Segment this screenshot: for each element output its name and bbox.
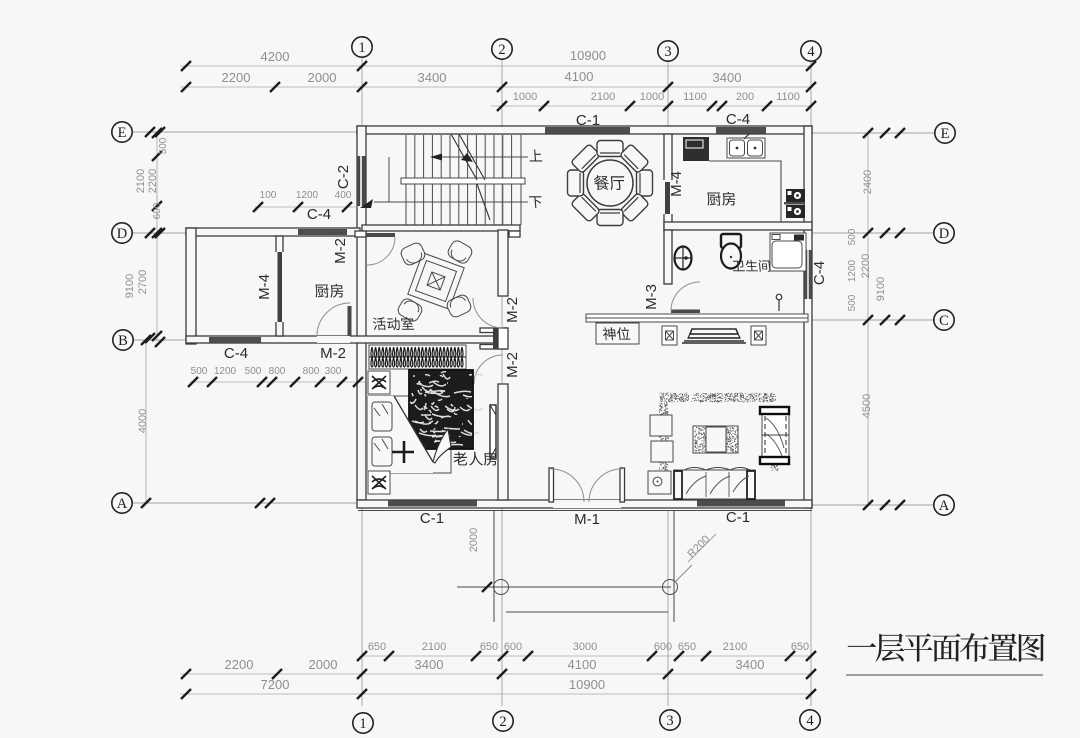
grid bubble 1 top (352, 37, 372, 57)
svg-text:3400: 3400 (736, 657, 765, 672)
door M-1 entrance left leaf (549, 468, 554, 502)
kitchen sink (727, 138, 765, 158)
svg-text:300: 300 (325, 366, 342, 377)
living lamp table (648, 471, 671, 494)
svg-text:650: 650 (480, 641, 498, 653)
svg-text:9100: 9100 (875, 277, 887, 301)
radius label R200 (675, 565, 692, 582)
bedroom bedside table top (368, 371, 390, 394)
wall hall west lower (498, 384, 508, 500)
wall hall west upper (498, 230, 508, 296)
svg-text:3400: 3400 (415, 657, 444, 672)
left dim ticks (152, 128, 162, 138)
room label kitchen right (708, 192, 736, 206)
svg-text:2000: 2000 (468, 528, 480, 552)
dining table round (587, 160, 633, 206)
door M-1 entrance right leaf (620, 468, 625, 502)
svg-text:4: 4 (807, 44, 815, 60)
right dim ticks (863, 128, 873, 138)
stair handrail (401, 178, 525, 184)
living rug border top (660, 393, 776, 402)
svg-text:2200: 2200 (147, 169, 159, 193)
door M-4 left wing leaf (278, 252, 283, 322)
svg-text:650: 650 (368, 641, 386, 653)
svg-text:M-2: M-2 (504, 297, 521, 323)
grid bubble E left (112, 122, 132, 142)
stair stringer right edge (520, 135, 522, 225)
bed sheet fold (368, 396, 433, 473)
dim line bottom row3 (180, 693, 813, 695)
window C-4 left wing north (298, 229, 347, 235)
svg-text:M-2: M-2 (320, 345, 346, 362)
svg-text:M-1: M-1 (574, 511, 600, 528)
door M-2 left wing kitchen leaf (348, 306, 352, 336)
grid bubble C right (934, 310, 954, 330)
bath toilet (721, 234, 741, 248)
altar table top (682, 329, 746, 343)
wall row B (186, 336, 507, 343)
svg-text:3: 3 (666, 713, 673, 729)
svg-text:1100: 1100 (776, 91, 800, 103)
living rug border right (771, 465, 779, 470)
activity table square (408, 253, 464, 309)
grid row C line (812, 319, 934, 321)
door M-2 stair to activity arc (367, 237, 395, 265)
stair label up (530, 150, 543, 162)
wall dining kitchen divider (664, 134, 672, 230)
svg-text:1000: 1000 (640, 91, 664, 103)
svg-text:R200: R200 (685, 533, 712, 560)
window C-2 west (357, 156, 367, 206)
svg-text:2000: 2000 (308, 70, 337, 85)
svg-text:3000: 3000 (573, 641, 597, 653)
dim line bottom row2 (180, 673, 813, 675)
title underline (846, 674, 1043, 676)
dim line bottom row1 (362, 655, 813, 657)
door M-3 bath arc (671, 282, 700, 311)
wall left wing north row D (186, 228, 360, 236)
bed pillows (372, 402, 392, 431)
bedroom bed (368, 396, 451, 473)
svg-text:M-3: M-3 (643, 284, 660, 310)
svg-text:C-4: C-4 (224, 345, 248, 362)
title first floor plan layout (848, 633, 1045, 662)
svg-text:4100: 4100 (565, 69, 594, 84)
living coffee table (693, 426, 738, 453)
grid bubble 3 bottom (660, 710, 680, 730)
svg-text:4200: 4200 (261, 49, 290, 64)
svg-text:D: D (117, 226, 127, 242)
grid bubble B left (113, 330, 133, 350)
door M-1 right arc (589, 469, 622, 502)
svg-text:500: 500 (847, 228, 858, 245)
porch tick (482, 582, 492, 592)
svg-text:2: 2 (498, 42, 505, 58)
svg-text:9100: 9100 (124, 274, 136, 298)
grid row B line (133, 339, 187, 341)
bedroom mirror bar (490, 405, 496, 458)
grid line 1 vertical (361, 58, 363, 706)
window C-4 east bath (805, 250, 812, 299)
grid bubble 2 top (492, 39, 512, 59)
svg-text:500: 500 (158, 137, 169, 154)
svg-text:M-4: M-4 (668, 171, 685, 197)
svg-text:2200: 2200 (225, 657, 254, 672)
svg-text:C-1: C-1 (420, 510, 444, 527)
living sofa (674, 470, 755, 499)
window C-4 north kitchen (716, 127, 766, 134)
room label shrine (603, 327, 631, 340)
grid bubble D right (934, 223, 954, 243)
svg-text:C-2: C-2 (335, 165, 352, 189)
living rug border left (659, 402, 669, 472)
stair up route line (436, 156, 528, 158)
svg-text:2100: 2100 (591, 91, 615, 103)
wall west exterior (357, 126, 366, 500)
dim line top row3 (491, 105, 813, 107)
svg-text:200: 200 (736, 91, 754, 103)
wall kitchen bath row D (664, 222, 812, 230)
grid line 2 vertical (501, 60, 503, 706)
room label activity room (373, 317, 414, 330)
grid bubble 4 top (801, 41, 821, 61)
living armchair lower (651, 441, 673, 462)
svg-text:1200: 1200 (214, 366, 237, 377)
svg-text:10900: 10900 (570, 48, 606, 63)
wall stair south inner stubs (355, 231, 366, 237)
svg-text:1200: 1200 (296, 190, 319, 201)
stair break line (451, 134, 490, 220)
grid row E line (133, 131, 357, 133)
svg-text:4100: 4100 (568, 657, 597, 672)
svg-text:400: 400 (335, 190, 352, 201)
stair label down (529, 196, 542, 208)
grid row D line (133, 232, 187, 234)
svg-text:500: 500 (847, 294, 858, 311)
double ticks on grid row lines (145, 127, 155, 137)
grid bubble A left (112, 493, 132, 513)
wall north exterior row E (357, 126, 812, 134)
dim line top row1 (180, 65, 813, 67)
porch inner line (506, 611, 668, 613)
altar table legs (662, 326, 677, 345)
stair inner boundary (388, 157, 390, 202)
svg-text:2400: 2400 (862, 170, 874, 194)
svg-text:1: 1 (359, 716, 366, 732)
wall left wing west (186, 228, 196, 344)
grid bubble 3 top (658, 41, 678, 61)
dim ticks bottom row3 (181, 689, 191, 699)
svg-text:800: 800 (303, 366, 320, 377)
svg-text:A: A (939, 498, 950, 514)
wall stair south (362, 225, 520, 231)
shrine label box (596, 323, 639, 344)
grid line 4 vertical (810, 62, 812, 706)
door M-2 stair to activity leaf (366, 233, 395, 237)
svg-text:2100: 2100 (723, 641, 747, 653)
window C-1 south living (697, 501, 785, 507)
svg-text:M-2: M-2 (332, 238, 349, 264)
svg-text:3: 3 (664, 44, 671, 60)
svg-text:800: 800 (269, 366, 286, 377)
kitchen stove (786, 189, 805, 202)
svg-text:A: A (117, 496, 128, 512)
bath washbasin (675, 247, 692, 270)
svg-text:650: 650 (678, 641, 696, 653)
svg-text:C-1: C-1 (576, 112, 600, 129)
window C-1 south bedroom (388, 501, 477, 507)
room label old people room (454, 452, 497, 466)
svg-text:M-4: M-4 (256, 274, 273, 300)
svg-text:E: E (941, 126, 950, 142)
door M-4 leaf kitchen (665, 182, 670, 214)
grid bubble 4 bottom (800, 710, 820, 730)
bed center cross (392, 441, 414, 463)
dim ticks bottom row1 (357, 651, 367, 661)
svg-text:1000: 1000 (513, 91, 537, 103)
sill line below south wall (358, 510, 812, 512)
door M-2 left wing kitchen arc (317, 303, 350, 336)
living armchair upper (650, 415, 672, 436)
porch edge right (673, 510, 675, 622)
dining chairs (637, 170, 653, 196)
grid bubble A right (934, 495, 954, 515)
svg-text:500: 500 (245, 366, 262, 377)
grid bubble E right (935, 123, 955, 143)
room label dining (594, 175, 624, 190)
svg-text:4000: 4000 (137, 409, 149, 433)
svg-text:2200: 2200 (222, 70, 251, 85)
svg-text:3400: 3400 (713, 70, 742, 85)
grid bubble 1 bottom (353, 713, 373, 733)
wall south exterior row A (357, 500, 812, 508)
svg-text:2200: 2200 (860, 254, 872, 278)
window C-1 north dining (545, 127, 630, 134)
wall east exterior (804, 126, 812, 508)
svg-text:3400: 3400 (418, 70, 447, 85)
svg-text:C-1: C-1 (726, 509, 750, 526)
svg-text:2000: 2000 (309, 657, 338, 672)
svg-text:C: C (939, 313, 949, 329)
svg-text:10900: 10900 (569, 677, 605, 692)
svg-text:E: E (118, 125, 127, 141)
svg-text:C-4: C-4 (726, 111, 750, 128)
porch step line with circles (457, 586, 671, 588)
svg-text:1100: 1100 (683, 91, 707, 103)
dim ticks top row2 (181, 82, 191, 92)
dim line top row2 (180, 86, 813, 88)
right vertical dim line (867, 133, 869, 505)
dim ticks top row3 (497, 101, 507, 111)
room label kitchen left wing (316, 284, 344, 298)
dim ticks top row1 (181, 61, 191, 71)
grid bubble D left (112, 223, 132, 243)
altar shelf band (586, 314, 808, 322)
grid bubble 2 bottom (493, 711, 513, 731)
door M-2 hall to activity arc (473, 298, 503, 328)
svg-text:100: 100 (260, 190, 277, 201)
svg-text:C-4: C-4 (307, 206, 331, 223)
window C-4 left wing south (209, 337, 261, 343)
svg-text:2: 2 (499, 714, 506, 730)
svg-text:D: D (939, 226, 949, 242)
grid line 3 vertical (667, 62, 669, 134)
porch edge left (493, 510, 495, 622)
bath tub (770, 233, 806, 271)
svg-text:1200: 1200 (847, 259, 858, 282)
svg-text:2700: 2700 (137, 270, 149, 294)
bedroom bedside table bottom (368, 471, 390, 494)
wall left wing divider M-4 (276, 236, 283, 336)
svg-text:2100: 2100 (135, 169, 147, 193)
stair treads (405, 135, 407, 225)
bedroom quilt dark (409, 370, 473, 449)
svg-text:4: 4 (806, 713, 814, 729)
svg-text:4500: 4500 (861, 394, 873, 418)
svg-text:500: 500 (191, 366, 208, 377)
svg-text:7200: 7200 (261, 677, 290, 692)
bath floor drain (776, 294, 782, 300)
bedroom wardrobe hatched (369, 345, 466, 369)
svg-text:1: 1 (358, 40, 365, 56)
svg-text:C-4: C-4 (811, 261, 828, 285)
kitchen counter line (709, 161, 781, 222)
wall bath west (664, 230, 672, 284)
living tv cabinet (762, 407, 789, 464)
door M-2 hall to bedroom arc (474, 355, 503, 384)
wall junction block between doors M-2 (480, 328, 507, 333)
door M-1 left arc (551, 469, 584, 502)
svg-text:2100: 2100 (422, 641, 446, 653)
door M-3 bath leaf (671, 310, 700, 314)
svg-text:B: B (118, 333, 128, 349)
kitchen fridge (683, 137, 709, 161)
dim ticks bottom row2 (181, 669, 191, 679)
grid row A line (132, 502, 358, 504)
stair down route line (374, 201, 528, 203)
left vertical dim line (156, 133, 158, 340)
room label bathroom (733, 260, 770, 272)
svg-text:600: 600 (152, 202, 163, 219)
activity chairs (399, 241, 427, 267)
svg-text:M-2: M-2 (504, 352, 521, 378)
